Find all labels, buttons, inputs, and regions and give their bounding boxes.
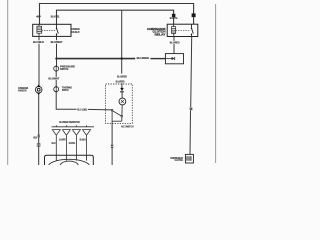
wire diode to compressor relay coil — [173, 37, 175, 54]
pressure switch — [54, 66, 59, 71]
heater fan switch box — [45, 155, 94, 165]
svg-text:SWITCH: SWITCH — [60, 67, 68, 71]
junction node at pressure switch branch — [55, 57, 57, 59]
heater fan switch dial arcs — [49, 159, 90, 165]
svg-text:4P: 4P — [36, 14, 41, 18]
connector on fan motor ground wire 2 — [37, 144, 40, 147]
compressor clutch box — [185, 154, 193, 163]
svg-text:BLK/YEL: BLK/YEL — [51, 15, 60, 19]
wire junction to pressure switch — [56, 59, 58, 67]
svg-text:BLU/RED: BLU/RED — [137, 56, 150, 60]
svg-text:FAN RELAY: FAN RELAY — [72, 30, 80, 34]
blower resistor top bar — [52, 126, 95, 128]
blower resistor element 1 — [52, 125, 60, 155]
svg-text:RELAY: RELAY — [155, 32, 166, 36]
blower resistor element 3 — [72, 125, 80, 155]
svg-text:BLU/BLK: BLU/BLK — [33, 40, 45, 44]
connector blob on compressor coil feed — [172, 14, 176, 17]
condenser fan relay contact — [57, 24, 59, 36]
condenser fan relay coil — [37, 26, 42, 33]
svg-text:BLU/RED: BLU/RED — [117, 74, 127, 78]
wire compressor relay contact to compressor clutch — [191, 37, 192, 108]
wire left page edge — [7, 0, 9, 165]
condenser fan relay box — [33, 24, 71, 36]
svg-text:BLU: BLU — [52, 141, 56, 145]
connector on fan motor ground wire — [38, 135, 40, 138]
compressor clutch relay coil — [172, 27, 176, 34]
svg-text:BLU/BLK: BLU/BLK — [80, 138, 86, 142]
A/C indicator diode — [120, 88, 124, 91]
wire mid bus to A/C switch branch — [57, 58, 136, 60]
wire mid bus to diode box — [150, 58, 165, 60]
condenser fan relay dashed link — [42, 29, 56, 31]
wire fan motor to bottom edge — [38, 95, 40, 165]
svg-text:SWITCH: SWITCH — [62, 88, 69, 92]
condenser fan relay coil pins — [38, 24, 40, 26]
svg-text:A/C SWITCH: A/C SWITCH — [121, 124, 134, 128]
wire pressure switch to thermo switch — [55, 71, 57, 86]
svg-text:BLU/WHT: BLU/WHT — [48, 77, 59, 81]
svg-text:B2: B2 — [33, 136, 37, 140]
compressor clutch relay coil pins — [173, 24, 175, 26]
wire top bus 2 tap down to A/C switch — [121, 10, 123, 73]
thermo switch — [54, 87, 59, 92]
svg-text:BLU/WHT: BLU/WHT — [51, 40, 63, 44]
connector blob on compressor contact feed — [192, 13, 196, 17]
compressor clutch relay box — [167, 24, 198, 36]
connector on A/C switch wire — [111, 145, 113, 146]
svg-text:BLU (192): BLU (192) — [77, 107, 87, 111]
junction node on mid bus — [121, 57, 123, 59]
wire relay coil to fan motor — [38, 36, 40, 86]
blower resistor element 4 — [83, 125, 91, 155]
wire right page edge — [215, 4, 217, 163]
A/C switch contacts — [121, 105, 123, 116]
wire top bus 2 — [57, 10, 174, 24]
compressor clutch relay dashed link — [176, 29, 191, 31]
svg-text:BLU/WHT: BLU/WHT — [59, 138, 66, 142]
svg-text:CLUTCH: CLUTCH — [175, 158, 183, 162]
diode box — [165, 54, 183, 64]
condenser fan motor — [35, 86, 42, 93]
compressor clutch coil — [187, 156, 191, 161]
wire A/C switch to bottom edge — [111, 121, 113, 144]
A/C switch dashed box — [106, 84, 133, 123]
svg-text:BLU/RED: BLU/RED — [170, 41, 180, 45]
svg-text:BLK/YEL: BLK/YEL — [170, 16, 178, 20]
wire thermo switch to A/C switch — [56, 92, 76, 109]
compressor clutch relay contact — [192, 24, 194, 36]
svg-text:BLU/RED: BLU/RED — [116, 80, 125, 84]
svg-text:BLOWER RESISTOR: BLOWER RESISTOR — [59, 120, 80, 124]
connector on compressor wire — [190, 108, 193, 111]
heater fan switch terminal stubs inside box — [56, 155, 86, 160]
diode — [165, 58, 172, 60]
svg-text:FAN MOTOR: FAN MOTOR — [18, 88, 27, 92]
blower resistor element 2 — [62, 125, 70, 155]
svg-text:BLU/YEL: BLU/YEL — [69, 141, 76, 145]
wire top bus 1 — [40, 4, 194, 25]
A/C indicator lamp — [121, 92, 123, 98]
wire relay contact down to junction — [56, 36, 58, 58]
